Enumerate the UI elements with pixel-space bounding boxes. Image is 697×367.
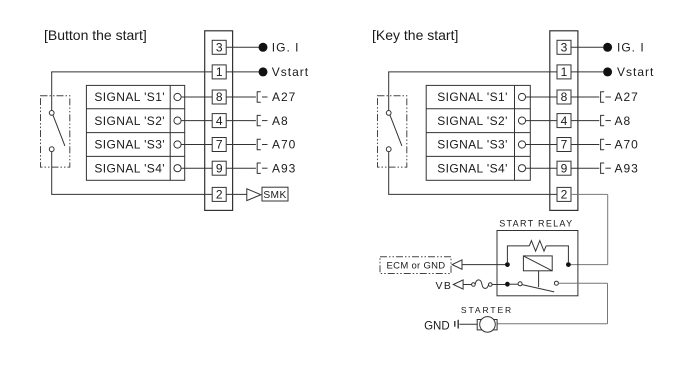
svg-text:8: 8 [216,90,223,104]
wire S1 to pin 8 [181,96,212,98]
node IG. I terminal [259,43,268,52]
svg-text:SIGNAL 'S3': SIGNAL 'S3' [94,138,165,152]
relay coil resistor R (zigzag) [529,241,546,252]
relay actuator link [538,271,540,287]
wire pin 2 to start relay coil (into relay) [568,264,607,266]
svg-text:SIGNAL 'S1': SIGNAL 'S1' [94,90,165,104]
svg-text:A70: A70 [615,138,639,152]
pin 2 (right) [557,187,571,201]
svg-text:SIGNAL 'S4': SIGNAL 'S4' [94,161,165,175]
relay contact pivot [518,282,522,286]
wire key switch bottom to pin 2 (vertical) [388,152,390,195]
signal S2 output contact (right) [518,117,525,124]
key switch bottom contact [386,147,391,152]
signal block outer box [86,85,184,180]
connector stub A70 (right) [601,139,611,149]
wire VB to fuse [463,284,472,286]
relay contact NO terminal [554,281,558,285]
svg-text:9: 9 [561,161,568,175]
wire key switch top to pin 1 (horizontal) [388,71,557,73]
pin 4 (right) [557,114,571,128]
wire S3 to pin 7 [181,144,212,146]
wire pin 7 to A70 [226,144,256,146]
connector stub A93 [257,163,267,173]
connector stub A8 (right) [601,115,611,125]
svg-text:START RELAY: START RELAY [499,219,573,229]
pin 3 [212,40,226,54]
svg-text:A8: A8 [615,114,632,128]
signal block outer box (right) [426,85,530,180]
starter motor M rotor [480,317,496,333]
pin 4 [212,114,226,128]
signal block row divider 3 [86,155,184,157]
wire pin 2 to start relay coil (vertical) [607,194,609,264]
pin 9 [212,161,226,175]
wire S4 to pin 9 [181,167,212,169]
connector J2 body [550,31,578,211]
signal S2 output contact [174,117,181,124]
wire common to pivot [510,283,518,285]
connector stub A8 [257,115,267,125]
svg-text:3: 3 [216,41,223,55]
signal block pin column divider (right) [514,85,516,180]
wire S4 to pin 9 (right) [526,167,557,169]
signal block row divider 3 (right) [426,155,530,157]
wire pin 3 to IG. I [226,46,258,48]
wire ECM to relay [462,264,505,266]
ECM or GND box (dash-dot) [380,257,451,274]
pin 3 (right) [557,40,571,54]
node IG. I terminal (right) [603,43,612,52]
wire switch top to pin 1 (horizontal) [51,71,212,73]
node relay coil terminal left [505,262,510,267]
svg-text:[Button the start]: [Button the start] [44,27,147,43]
wire S3 to pin 7 (right) [526,144,557,146]
svg-text:2: 2 [561,188,568,202]
svg-text:1: 1 [216,65,223,79]
svg-text:2: 2 [216,188,223,202]
pin 9 (right) [557,161,571,175]
wire key switch bottom to pin 2 (horizontal) [388,193,557,195]
signal block row divider 1 [86,108,184,110]
svg-text:1: 1 [561,65,568,79]
pin 1 [212,65,226,79]
key switch enclosure (dash-dot box) [378,96,407,167]
wire S2 to pin 4 [181,120,212,122]
connector J1 body [205,31,233,211]
push-button switch enclosure (dash-dot box) [41,96,70,167]
svg-text:SIGNAL 'S4': SIGNAL 'S4' [437,161,508,175]
connector stub A70 [257,139,267,149]
svg-text:GND: GND [424,320,450,332]
wire pin 4 to A8 (right) [571,120,599,122]
wire pin 8 to A27 (right) [571,96,599,98]
signal S4 output contact (right) [518,165,525,172]
pin 7 (right) [557,138,571,152]
fuse F element [475,280,488,289]
svg-text:8: 8 [561,90,568,104]
wire pin 4 to A8 [226,120,256,122]
wire relay contact to starter (vertical) [607,283,609,324]
buffer symbol to SMK [247,189,261,201]
connector stub A27 (right) [601,92,611,102]
wire switch bottom to pin 2 (horizontal) [51,193,212,195]
svg-text:A70: A70 [272,138,296,152]
signal S1 output contact (right) [518,93,525,100]
arrow to ECM or GND [452,260,462,269]
relay contact blade [522,285,554,292]
svg-text:SIGNAL 'S1': SIGNAL 'S1' [437,90,508,104]
switch S (button) bottom contact [49,147,54,152]
svg-text:IG. I: IG. I [272,41,300,55]
svg-text:Vstart: Vstart [272,65,309,79]
signal S3 output contact (right) [518,141,525,148]
svg-text:9: 9 [216,161,223,175]
svg-text:[Key the start]: [Key the start] [372,27,458,43]
svg-text:IG. I: IG. I [617,41,645,55]
node relay contact common [505,282,510,287]
pin 8 [212,90,226,104]
wire key switch top to pin 1 (vertical) [388,72,390,111]
wire S1 to pin 8 (right) [526,96,557,98]
signal block pin column divider [169,85,171,180]
relay coil resistor right lead [546,246,568,262]
pin 1 (right) [557,65,571,79]
svg-text:A27: A27 [272,90,296,104]
wire pin 9 to A93 [226,167,256,169]
wire pin 1 to Vstart [226,71,258,73]
starter motor M body [477,320,497,330]
svg-text:A8: A8 [272,114,289,128]
pin 7 [212,138,226,152]
pin 8 (right) [557,90,571,104]
arrow to VB [453,280,463,289]
signal S3 output contact [174,141,181,148]
pin 2 [212,187,226,201]
switch S (button) blade [53,115,65,146]
connector stub A93 (right) [601,163,611,173]
wire pin 9 to A93 (right) [571,167,599,169]
svg-text:3: 3 [561,41,568,55]
wire relay contact to starter (bottom) [497,323,607,325]
svg-text:A93: A93 [615,161,639,175]
svg-text:SIGNAL 'S2': SIGNAL 'S2' [94,114,165,128]
ground symbol [455,320,458,329]
wire fuse to relay contact [492,284,505,286]
svg-text:7: 7 [561,138,568,152]
wire pin 7 to A70 (right) [571,144,599,146]
signal block row divider 2 [86,132,184,134]
key switch blade [390,115,402,146]
wire pin 3 to IG. I (right) [571,46,603,48]
start relay body [497,231,578,296]
node Vstart terminal [259,67,268,76]
svg-text:Vstart: Vstart [617,65,654,79]
svg-text:7: 7 [216,138,223,152]
svg-text:SIGNAL 'S3': SIGNAL 'S3' [437,138,508,152]
wire switch bottom to pin 2 (vertical) [51,152,53,195]
svg-text:VB: VB [436,280,453,292]
svg-text:4: 4 [561,114,568,128]
SMK box [262,187,288,201]
signal S4 output contact [174,165,181,172]
relay coil resistor left lead [507,246,529,262]
wire pin 2 to start relay coil (horizontal) [571,193,608,195]
wire pin 8 to A27 [226,96,256,98]
wire relay contact to starter (horizontal) [558,282,607,284]
svg-text:STARTER: STARTER [461,305,513,315]
fuse F (fusible link) left terminal [472,283,476,287]
signal block row divider 1 (right) [426,108,530,110]
connector stub A27 [257,92,267,102]
relay coil (box with diagonal) [523,256,552,271]
svg-text:A93: A93 [272,161,296,175]
wire switch top to pin 1 (vertical) [51,72,53,111]
svg-text:ECM or GND: ECM or GND [387,260,446,271]
switch S (button) top contact [49,111,54,116]
wire ground to starter motor [459,323,477,325]
node Vstart terminal (right) [603,67,612,76]
svg-text:4: 4 [216,114,223,128]
svg-text:SIGNAL 'S2': SIGNAL 'S2' [437,114,508,128]
svg-text:A27: A27 [615,90,639,104]
key switch top contact [386,111,391,116]
svg-text:SMK: SMK [263,190,286,201]
wire S2 to pin 4 (right) [526,120,557,122]
signal S1 output contact [174,93,181,100]
wire pin 2 to SMK buffer [226,193,247,195]
wire pin 1 to Vstart (right) [571,71,603,73]
fuse F right terminal [489,283,493,287]
signal block row divider 2 (right) [426,132,530,134]
node relay coil terminal right [566,262,571,267]
